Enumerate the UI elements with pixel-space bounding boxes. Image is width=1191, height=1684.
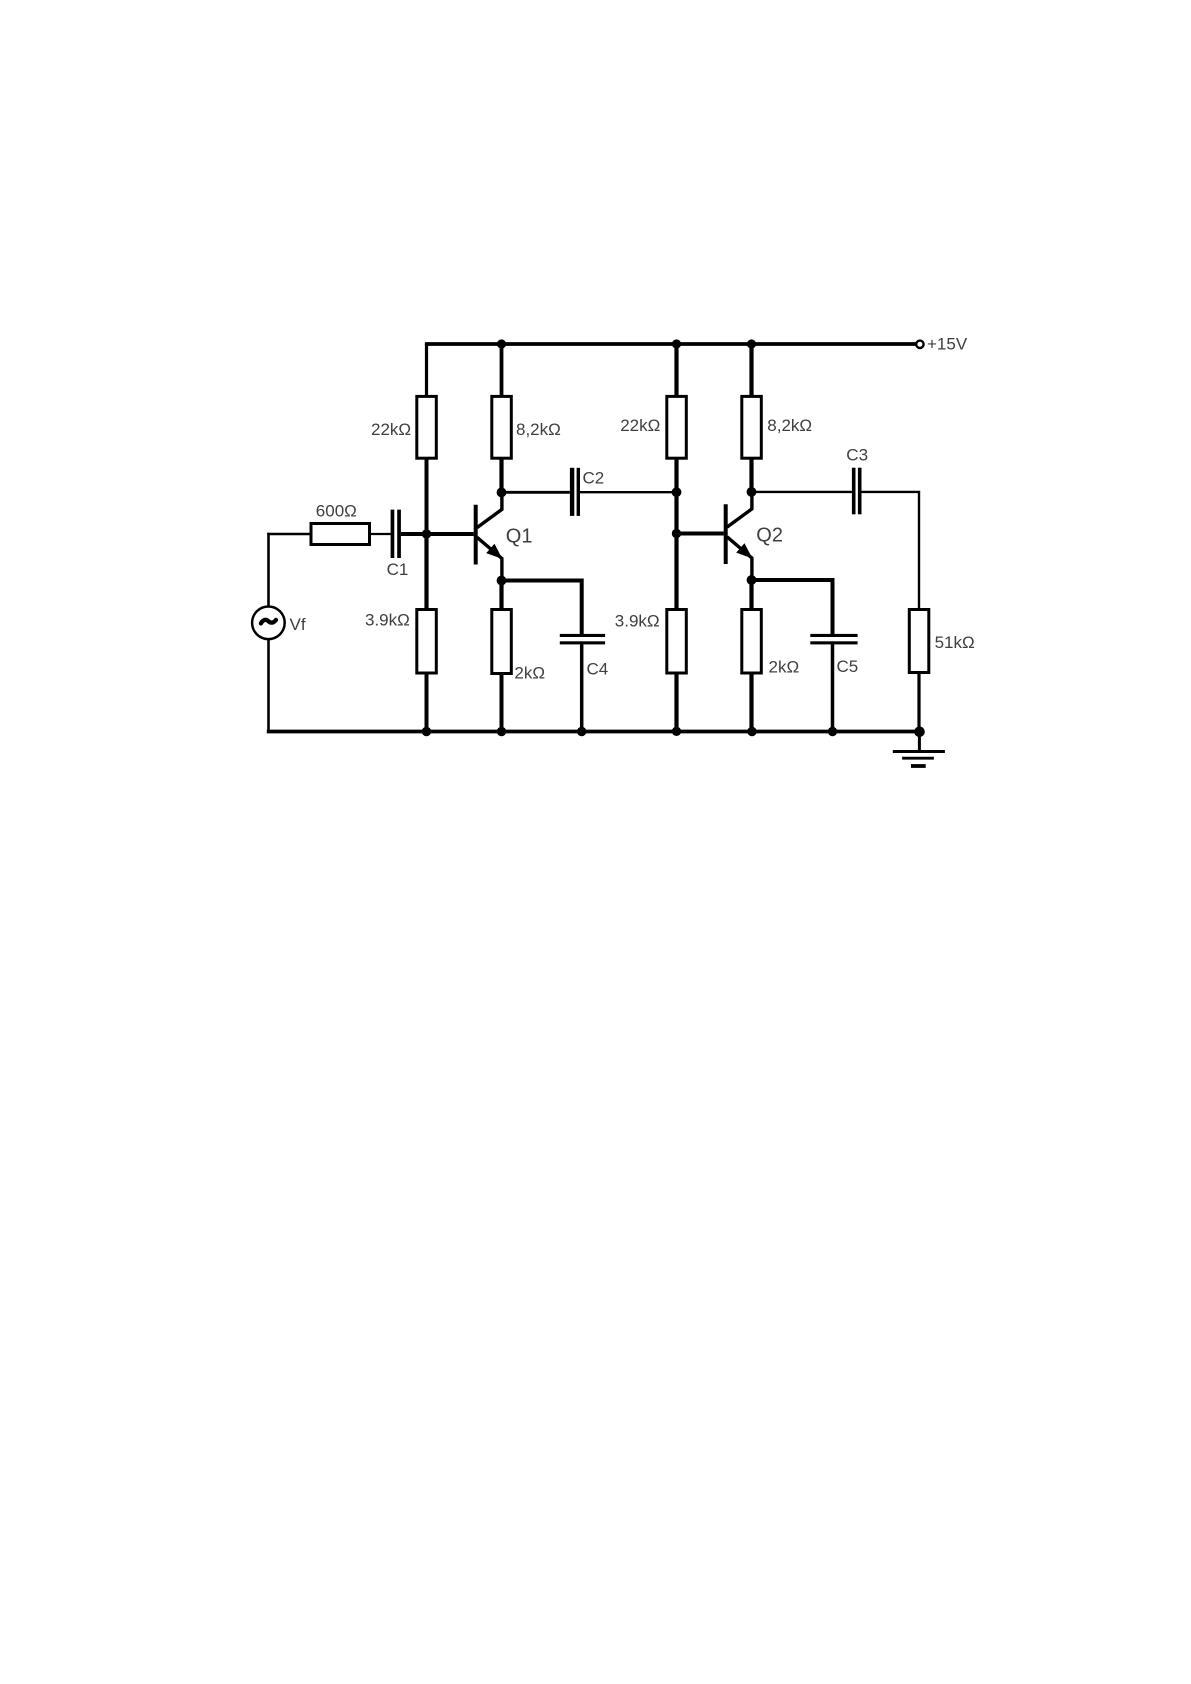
node junction dot base node Q1 bbox=[422, 529, 431, 538]
resistor 51kΩ load bbox=[909, 610, 929, 673]
wire source bottom down to ground rail bbox=[267, 639, 270, 734]
svg-text:C4: C4 bbox=[587, 660, 609, 679]
wire input line to 600 ohm bbox=[267, 533, 311, 536]
svg-text:3.9kΩ: 3.9kΩ bbox=[615, 612, 660, 631]
resistor 8,2kΩ stage2 collector bbox=[742, 396, 762, 458]
node junction dot rail / ground bbox=[914, 727, 925, 738]
svg-text:600Ω: 600Ω bbox=[316, 502, 357, 521]
wire 51k to ground rail bbox=[917, 673, 920, 732]
resistor 22kΩ stage1 bias upper bbox=[417, 396, 437, 458]
transistor Q1 emitter arrow bbox=[488, 545, 501, 557]
wire base node down to 3.9k stage1 bbox=[424, 532, 428, 611]
transistor Q1 emitter lead bbox=[477, 537, 502, 581]
svg-text:Q1: Q1 bbox=[506, 526, 533, 548]
wire 8.2k stage2 bottom to collector node bbox=[749, 458, 753, 492]
transistor Q2 base bar bbox=[724, 504, 728, 564]
resistor 22kΩ stage2 bias upper bbox=[667, 396, 687, 458]
wire C5 to ground rail bbox=[831, 644, 835, 731]
capacitor C3 right plate bbox=[858, 468, 862, 515]
wire C2 to stage2 base column bbox=[580, 491, 677, 493]
wire Q1 collector stub to C2 bbox=[502, 491, 570, 494]
svg-text:C3: C3 bbox=[846, 446, 868, 465]
capacitor C2 right plate bbox=[577, 468, 580, 516]
wire Q1 base lead (bold) bbox=[427, 532, 474, 536]
capacitor C4 top plate bbox=[560, 634, 605, 637]
node junction dot rail / 2k stage1 bbox=[497, 727, 506, 736]
svg-text:8,2kΩ: 8,2kΩ bbox=[767, 416, 812, 435]
svg-text:C1: C1 bbox=[387, 560, 409, 579]
ground bar 1 bbox=[893, 750, 945, 753]
node junction dot Q2 emitter bbox=[747, 575, 757, 585]
svg-text:Q2: Q2 bbox=[756, 525, 783, 547]
resistor 8,2kΩ stage1 collector bbox=[492, 396, 512, 458]
node junction dot rail / 2k stage2 bbox=[747, 727, 756, 736]
svg-text:+15V: +15V bbox=[927, 335, 968, 354]
wire Q1 emitter down to 2k stage1 bbox=[499, 581, 503, 611]
wire Q2 base lead (bold) bbox=[677, 532, 724, 536]
node junction dot C2 / stage2 column bbox=[672, 487, 682, 497]
node junction dot Q1 emitter bbox=[497, 576, 507, 586]
svg-text:C2: C2 bbox=[583, 469, 605, 488]
resistor 600Ω series input bbox=[311, 524, 370, 545]
transistor Q1 base bar bbox=[474, 505, 478, 565]
node +15V terminal (open circle) bbox=[916, 341, 923, 348]
node junction dot Q1 collector bbox=[497, 488, 507, 498]
capacitor C1 right plate bbox=[397, 510, 401, 558]
ground stem bbox=[918, 732, 921, 752]
svg-text:22kΩ: 22kΩ bbox=[620, 416, 660, 435]
wire 2k stage2 to ground rail bbox=[749, 673, 753, 732]
node junction dot base node Q2 bbox=[672, 529, 681, 538]
ground bar 2 bbox=[902, 757, 934, 760]
svg-text:2kΩ: 2kΩ bbox=[769, 658, 800, 677]
node junction dot rail / 8.2k stage2 bbox=[747, 339, 756, 348]
wire 2k stage1 to ground rail bbox=[500, 674, 504, 732]
resistor 3.9kΩ stage1 bias lower bbox=[417, 610, 437, 674]
resistor 2kΩ stage2 emitter bbox=[742, 610, 762, 674]
wire C1 to base node Q1 (bold) bbox=[401, 532, 427, 536]
wire rail to R 22k stage2 bbox=[674, 344, 678, 398]
wire source top up to input line bbox=[267, 533, 270, 607]
svg-text:22kΩ: 22kΩ bbox=[371, 420, 411, 439]
node junction dot rail / C4 bbox=[577, 727, 586, 736]
transistor Q2 emitter arrow bbox=[738, 545, 751, 557]
wire bottom ground rail bbox=[267, 730, 920, 734]
svg-text:8,2kΩ: 8,2kΩ bbox=[516, 420, 561, 439]
wire Q2 emitter to C5 (bold) bbox=[752, 580, 833, 635]
resistor 3.9kΩ stage2 bias lower bbox=[667, 610, 687, 674]
node junction dot rail / C5 bbox=[828, 727, 837, 736]
capacitor C4 bottom plate bbox=[560, 641, 605, 644]
wire rail to R 8.2k stage1 bbox=[500, 344, 504, 398]
source Vf (sine source circle) bbox=[252, 607, 285, 640]
wire 3.9k stage1 to ground rail bbox=[425, 673, 429, 732]
wire 8.2k stage1 bottom to collector node bbox=[499, 458, 503, 493]
node junction dot rail / 3.9k stage2 bbox=[672, 727, 681, 736]
wire rail to R 22k stage1 bbox=[425, 344, 428, 398]
wire C3 to output column bbox=[862, 492, 920, 611]
ground bar 3 bbox=[911, 764, 926, 768]
capacitor C5 top plate bbox=[810, 634, 857, 637]
capacitor C5 bottom plate bbox=[810, 641, 857, 644]
wire Q2 collector stub to C3 bbox=[752, 491, 852, 493]
svg-text:2kΩ: 2kΩ bbox=[514, 664, 545, 683]
wire rail to R 8.2k stage2 bbox=[749, 344, 753, 398]
capacitor C1 left plate bbox=[391, 510, 395, 558]
wire 3.9k stage2 to ground rail bbox=[674, 673, 678, 732]
svg-text:3.9kΩ: 3.9kΩ bbox=[365, 611, 410, 630]
transistor Q1 collector lead bbox=[477, 493, 502, 528]
resistor 2kΩ stage1 emitter bbox=[492, 610, 512, 674]
wire Q2 emitter down to 2k stage2 bbox=[749, 580, 753, 611]
wire 22k stage1 bottom to base node bbox=[425, 458, 429, 536]
svg-text:Vf: Vf bbox=[290, 615, 306, 634]
node junction dot rail / 3.9k stage1 bbox=[422, 727, 431, 736]
node junction dot rail / 8.2k stage1 bbox=[497, 339, 506, 348]
wire 22k stage2 bottom down base column bbox=[674, 458, 678, 610]
wire C4 to ground rail bbox=[580, 644, 584, 731]
node junction dot Q2 collector bbox=[747, 487, 757, 497]
transistor Q2 emitter lead bbox=[727, 537, 752, 581]
wire 600 ohm to C1 bbox=[370, 533, 391, 535]
svg-text:C5: C5 bbox=[837, 657, 859, 676]
source Vf sine glyph bbox=[261, 620, 276, 624]
capacitor C3 left plate bbox=[852, 468, 856, 515]
node junction dot rail / 22k stage2 bbox=[672, 339, 681, 348]
capacitor C2 left plate bbox=[570, 468, 574, 516]
svg-text:51kΩ: 51kΩ bbox=[935, 633, 975, 652]
wire Q1 emitter to C4 (bold) bbox=[502, 581, 582, 635]
transistor Q2 collector lead bbox=[727, 492, 752, 527]
wire +15V top rail bbox=[425, 342, 916, 346]
